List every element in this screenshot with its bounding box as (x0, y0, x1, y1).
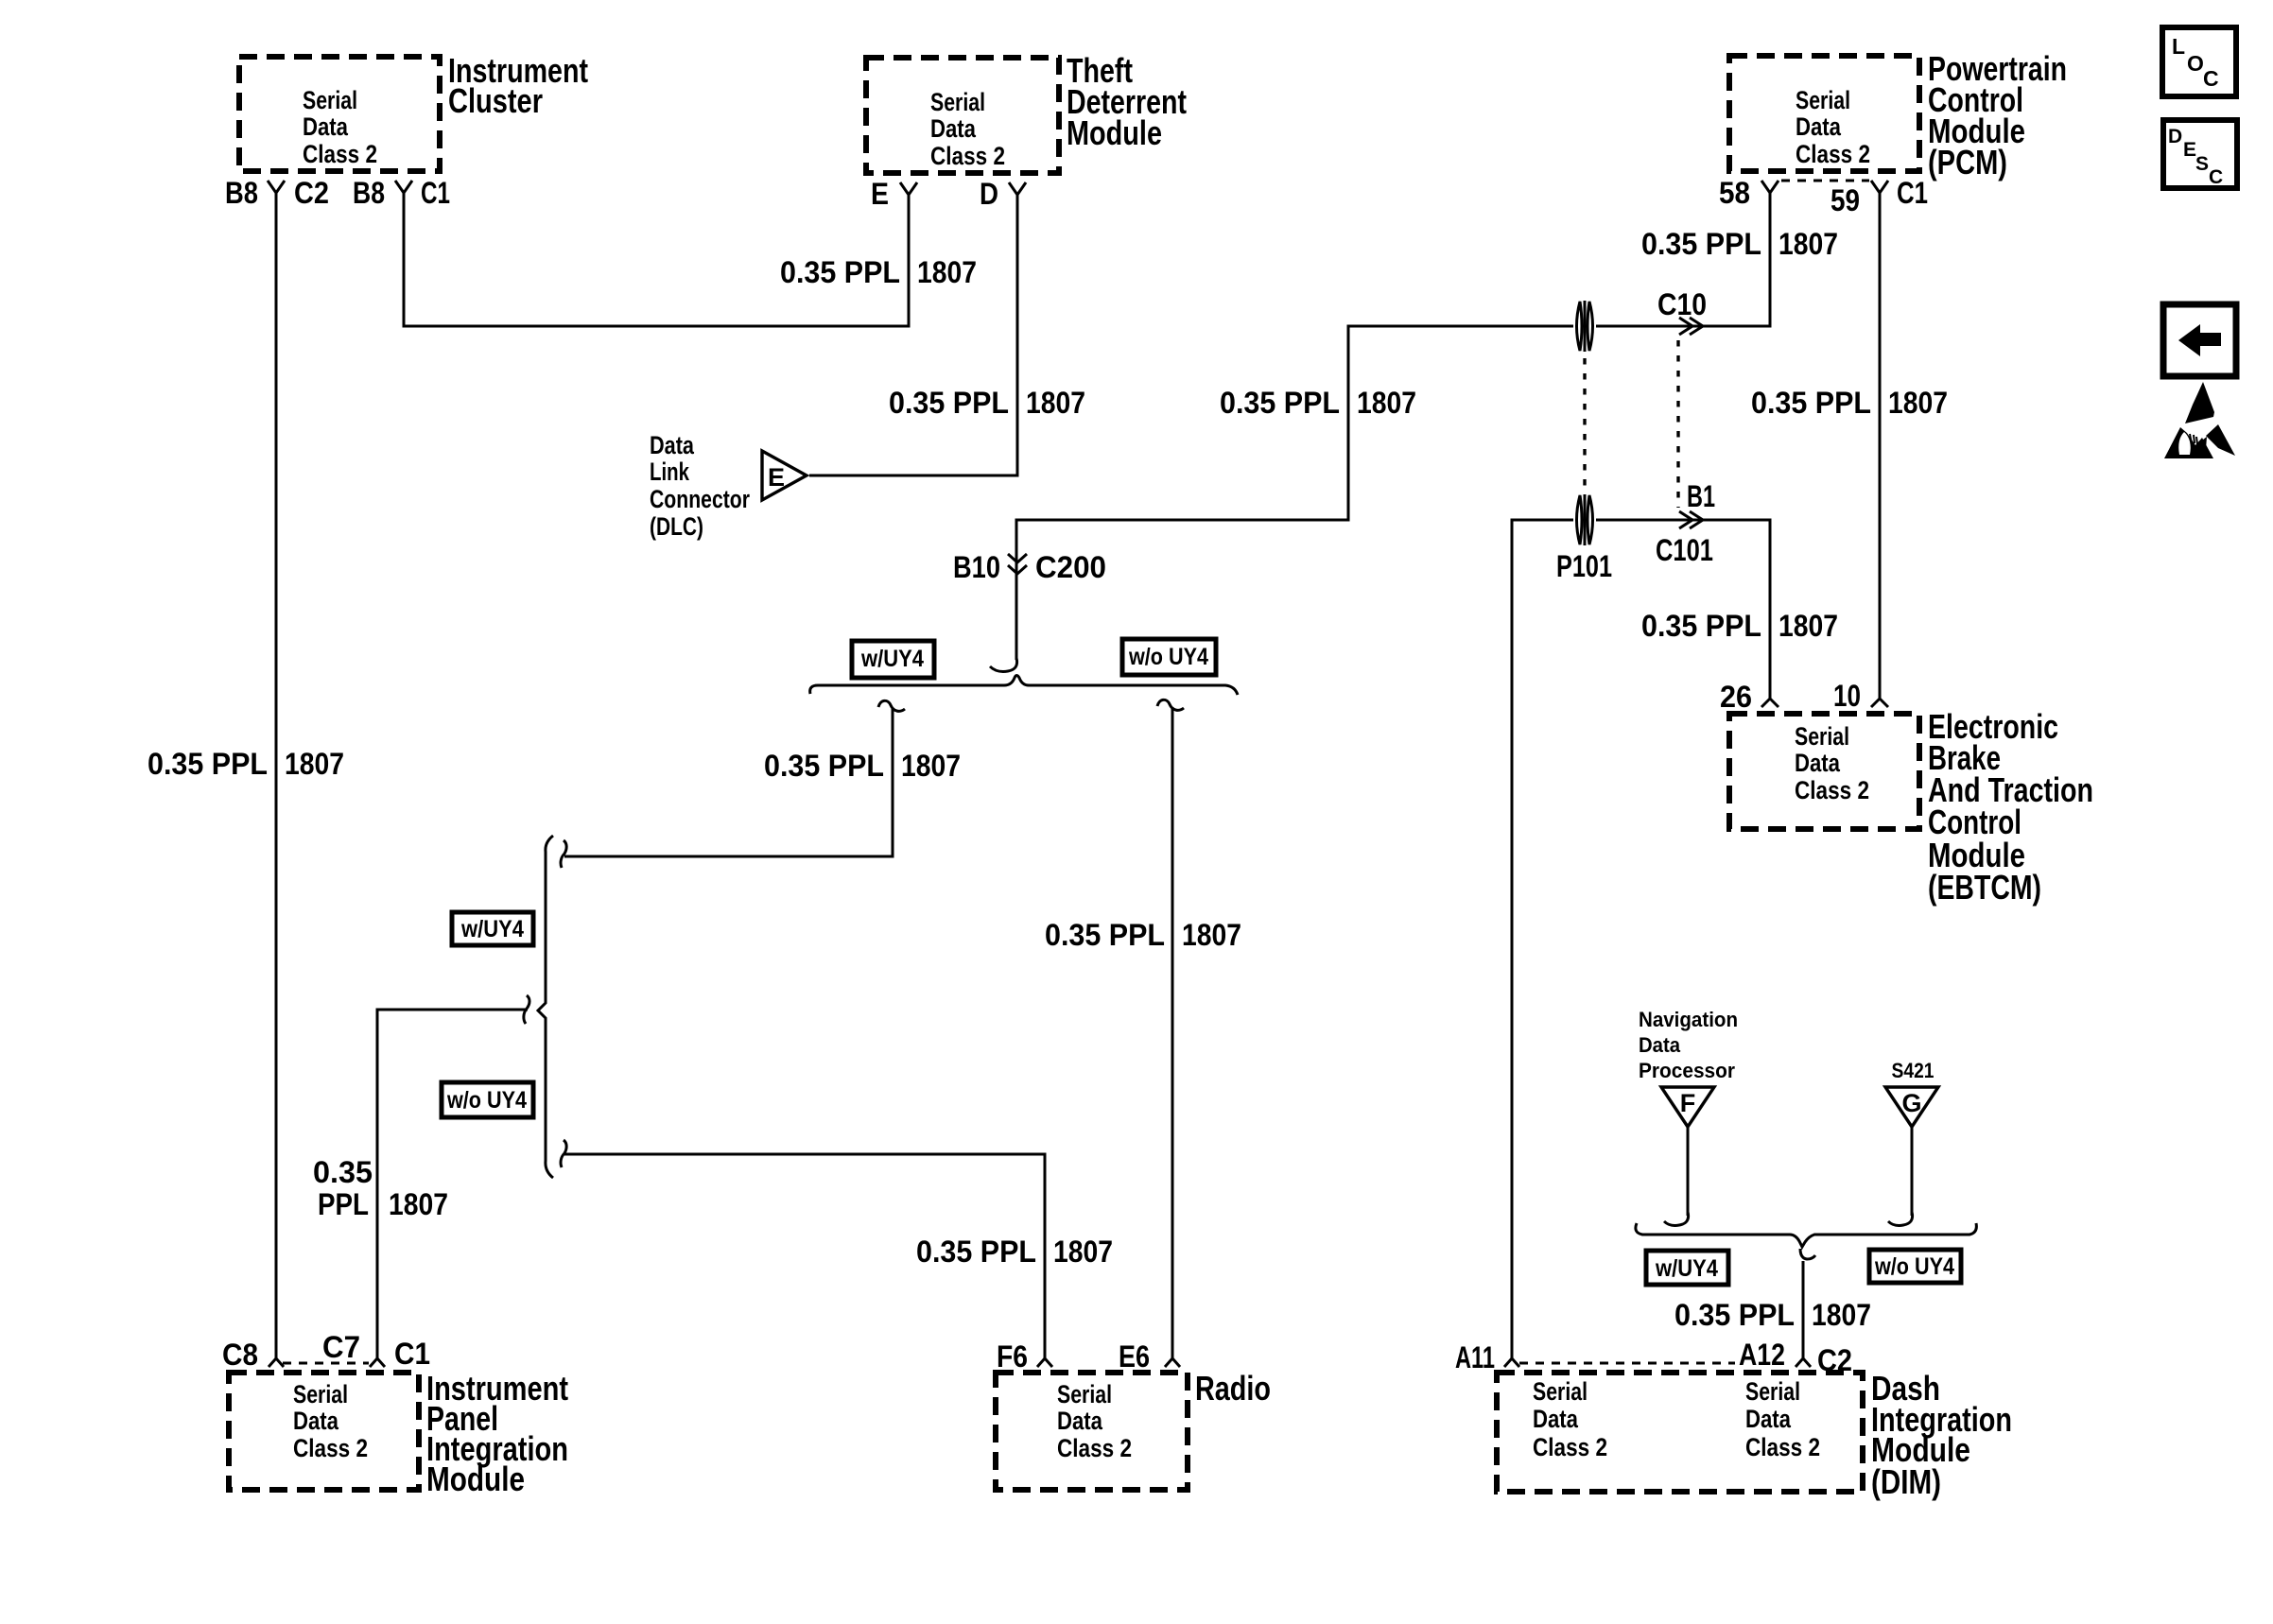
svg-text:1807: 1807 (901, 749, 961, 783)
label w/o UY4 (top split) (1122, 639, 1216, 675)
svg-text:C: C (2203, 66, 2219, 91)
module Dash Integration Module dashed box (1497, 1373, 1863, 1492)
svg-text:Class 2: Class 2 (1795, 776, 1869, 804)
svg-text:F6: F6 (997, 1339, 1028, 1373)
svg-text:0.35 PPL: 0.35 PPL (1751, 386, 1871, 420)
svg-text:Class 2: Class 2 (293, 1434, 368, 1462)
connector pin symbol 26 (1761, 699, 1778, 707)
icon back arrow box (2163, 304, 2236, 376)
svg-text:Data: Data (1057, 1407, 1103, 1435)
svg-text:B8: B8 (353, 176, 385, 210)
label Dash Integration Module (DIM) title (1871, 1369, 2012, 1501)
svg-text:w/o UY4: w/o UY4 (1874, 1253, 1954, 1280)
svg-text:1807: 1807 (1182, 918, 1241, 952)
svg-text:0.35: 0.35 (313, 1155, 373, 1189)
module Powertrain Control Module (PCM) dashed box (1729, 56, 1919, 171)
svg-text:1807: 1807 (917, 255, 977, 289)
svg-text:B10: B10 (953, 550, 1000, 584)
svg-text:Class 2: Class 2 (1533, 1433, 1607, 1461)
svg-text:Data: Data (930, 114, 977, 143)
dashed connector line below grommet (1583, 358, 1586, 492)
svg-text:O: O (2187, 51, 2204, 76)
svg-text:0.35 PPL: 0.35 PPL (764, 749, 884, 783)
svg-text:P101: P101 (1556, 549, 1612, 583)
svg-text:Radio: Radio (1195, 1369, 1271, 1408)
wire Instrument Cluster B8/C1 to TDM E (404, 193, 909, 326)
icon LOC box (2162, 27, 2236, 96)
label Serial Data Class 2 (IPIM) (293, 1380, 368, 1462)
label Serial Data Class 2 (EBTCM) (1795, 722, 1869, 804)
label Serial Data Class 2 (DIM right) (1745, 1377, 1820, 1461)
dashed tie between IPIM pins (283, 1362, 369, 1365)
svg-text:Cluster: Cluster (448, 81, 543, 120)
svg-text:C2: C2 (294, 176, 329, 210)
svg-text:1807: 1807 (1888, 386, 1948, 420)
svg-text:0.35 PPL: 0.35 PPL (780, 255, 900, 289)
svg-text:F: F (1680, 1089, 1696, 1117)
wire end curl (F) (1664, 1212, 1689, 1226)
label 0.35 PPL 1807 (IPIM C7 wire, stacked) (313, 1155, 448, 1221)
connector pin symbol 10 (1871, 699, 1888, 707)
svg-text:Serial: Serial (1057, 1380, 1112, 1408)
icon DESC box (2163, 120, 2237, 188)
label w/o UY4 (brace) (442, 1082, 533, 1117)
svg-text:(DLC): (DLC) (650, 512, 703, 541)
svg-text:59: 59 (1831, 183, 1860, 217)
label w/UY4 (DIM split) (1646, 1251, 1728, 1285)
svg-text:58: 58 (1719, 176, 1750, 210)
wire end curl at C200 split (990, 658, 1017, 671)
wire TDM D to DLC (809, 195, 1017, 475)
svg-text:1807: 1807 (285, 747, 344, 781)
svg-text:D: D (2168, 126, 2182, 147)
svg-text:C7: C7 (322, 1330, 360, 1364)
svg-text:A12: A12 (1739, 1338, 1785, 1372)
connector pin Y symbol 59 (1871, 181, 1888, 193)
connector pin Y symbol B8/C1 (395, 181, 412, 193)
connector pin symbol F6 (1037, 1358, 1052, 1367)
connector C10 pass-through chevrons (1679, 318, 1703, 335)
svg-text:10: 10 (1833, 679, 1861, 713)
dashed tie between DIM pins (1519, 1362, 1735, 1365)
connector pin symbol C7 (370, 1358, 385, 1367)
connector pin Y symbol 58 (1761, 181, 1778, 193)
svg-text:(PCM): (PCM) (1928, 143, 2007, 181)
connector B1/C101 pass-through chevrons (1679, 511, 1703, 528)
svg-text:PPL: PPL (318, 1187, 369, 1221)
svg-text:C2: C2 (1817, 1343, 1852, 1377)
label Data Link Connector (DLC) (650, 431, 750, 541)
label Electronic Brake And Traction Control Module (EBTCM) title (1928, 707, 2093, 907)
svg-text:C1: C1 (394, 1337, 430, 1371)
label Theft Deterrent Module title (1067, 51, 1187, 152)
wire IPIM C7/C1 to brace middle (377, 1010, 528, 1358)
connector G triangle (S421) (1885, 1087, 1938, 1127)
option merge bus (DIM) (1636, 1223, 1977, 1247)
svg-text:w/UY4: w/UY4 (1655, 1255, 1718, 1282)
svg-text:Module: Module (1067, 113, 1162, 152)
connector pin symbol A12 (1796, 1358, 1811, 1367)
wire w/o UY4 branch (to Radio E6) (1157, 700, 1184, 710)
connector pin symbol C8 (269, 1358, 284, 1367)
svg-text:1807: 1807 (1812, 1298, 1871, 1332)
connector grommet P100 on PCM wire (y345) (1573, 300, 1596, 353)
svg-text:S: S (2195, 153, 2209, 175)
module Instrument Panel Integration Module dashed box (229, 1373, 419, 1490)
connector C200 chevrons on vertical wire (1008, 554, 1027, 574)
svg-text:Serial: Serial (1745, 1377, 1800, 1406)
wire end curl (G) (1888, 1212, 1913, 1226)
svg-text:1807: 1807 (1778, 227, 1838, 261)
connector pin symbol A11 (1504, 1358, 1519, 1367)
svg-text:Data: Data (1745, 1405, 1792, 1433)
svg-text:Module: Module (426, 1460, 525, 1498)
svg-text:Processor: Processor (1639, 1059, 1735, 1082)
connector grommet P101 on lower wire (y550) (1573, 493, 1596, 546)
svg-text:Serial: Serial (1795, 722, 1849, 751)
svg-text:w/o UY4: w/o UY4 (1128, 644, 1208, 670)
svg-text:Link: Link (650, 458, 690, 486)
svg-text:Class 2: Class 2 (1057, 1434, 1132, 1462)
svg-text:Connector: Connector (650, 485, 750, 513)
label Serial Data Class 2 (Theft Deterrent Module) (930, 88, 1005, 170)
label Navigation Data Processor (1639, 1008, 1738, 1082)
svg-text:A11: A11 (1455, 1340, 1495, 1374)
wire bottom branch (to Radio F6) (564, 1154, 1045, 1358)
svg-text:E: E (768, 463, 785, 492)
svg-text:Data: Data (1796, 112, 1842, 141)
wire w/UY4 branch (to brace top) (878, 700, 905, 711)
svg-text:Data: Data (293, 1407, 339, 1435)
big option brace (IPIM side) (538, 836, 553, 1178)
connector pin Y symbol B8/C2 (268, 181, 285, 193)
svg-text:1807: 1807 (1357, 386, 1416, 420)
svg-text:1807: 1807 (1026, 386, 1085, 420)
svg-text:0.35 PPL: 0.35 PPL (889, 386, 1009, 420)
svg-text:(DIM): (DIM) (1871, 1462, 1941, 1501)
svg-text:0.35 PPL: 0.35 PPL (1220, 386, 1340, 420)
svg-text:0.35 PPL: 0.35 PPL (1674, 1298, 1795, 1332)
brace hook at bottom branch (561, 1140, 566, 1167)
svg-text:0.35 PPL: 0.35 PPL (1641, 609, 1761, 643)
svg-text:C101: C101 (1656, 533, 1713, 567)
wire from F triangle (1687, 1127, 1690, 1216)
svg-text:Serial: Serial (1796, 86, 1850, 114)
module Radio dashed box (996, 1373, 1188, 1490)
svg-text:(EBTCM): (EBTCM) (1928, 868, 2041, 907)
module Theft Deterrent Module dashed box (866, 58, 1059, 173)
svg-text:Data: Data (1639, 1033, 1681, 1057)
svg-text:0.35 PPL: 0.35 PPL (1641, 227, 1761, 261)
wire P101 run: A11 drop, horizontal, EBTCM 26 drop (1512, 520, 1770, 1358)
svg-text:C1: C1 (421, 176, 450, 210)
label w/UY4 (top split) (852, 641, 934, 678)
svg-text:D: D (980, 177, 998, 211)
svg-text:S421: S421 (1892, 1059, 1935, 1082)
label w/UY4 (brace) (452, 912, 533, 945)
icon ESD warning symbol (2164, 382, 2235, 458)
svg-text:G: G (1901, 1089, 1921, 1117)
connector F triangle (Navigation Data Processor) (1661, 1087, 1714, 1127)
svg-text:0.35 PPL: 0.35 PPL (916, 1235, 1036, 1269)
module Instrument Cluster dashed box (239, 57, 440, 171)
wire DIM A12/C2 with top hook (1800, 1249, 1815, 1259)
label Serial Data Class 2 (PCM) (1796, 86, 1870, 168)
connector pin Y symbol D (1009, 182, 1026, 195)
svg-text:Serial: Serial (293, 1380, 348, 1408)
wire PCM 59/C1 to EBTCM pin 10 (1879, 193, 1882, 699)
svg-text:Data: Data (650, 431, 695, 459)
svg-text:C10: C10 (1657, 287, 1707, 321)
svg-text:1807: 1807 (1053, 1235, 1113, 1269)
dashed tie between PCM pins (1781, 180, 1869, 182)
svg-text:E: E (2183, 139, 2196, 161)
svg-text:E6: E6 (1119, 1339, 1150, 1373)
svg-text:C1: C1 (1897, 176, 1928, 210)
svg-text:Data: Data (1795, 749, 1841, 777)
brace hook at top branch (561, 840, 566, 868)
label Instrument Panel Integration Module title (426, 1369, 568, 1498)
connector pin symbol E6 (1165, 1358, 1180, 1367)
svg-text:B8: B8 (225, 176, 258, 210)
wire from G triangle (1911, 1127, 1914, 1216)
option split bus below C200 (810, 676, 1238, 696)
svg-text:C8: C8 (222, 1338, 258, 1372)
svg-text:1807: 1807 (389, 1187, 448, 1221)
label Instrument Cluster title (448, 51, 588, 120)
svg-text:Serial: Serial (303, 86, 357, 114)
module EBTCM dashed box (1729, 714, 1919, 829)
svg-text:1807: 1807 (1778, 609, 1838, 643)
connector pin Y symbol E (900, 182, 917, 195)
svg-text:w/o UY4: w/o UY4 (446, 1087, 527, 1114)
svg-text:0.35 PPL: 0.35 PPL (147, 747, 268, 781)
svg-text:Data: Data (303, 112, 349, 141)
wire PCM 58 to C200 branch point (1016, 193, 1770, 660)
wire Instrument Cluster B8/C2 to IPIM C8 (275, 193, 278, 1358)
svg-text:26: 26 (1720, 680, 1752, 714)
dashed connector line below C10 chevrons (1676, 340, 1679, 508)
label Serial Data Class 2 (DIM left) (1533, 1377, 1607, 1461)
label w/o UY4 (DIM split) (1869, 1250, 1961, 1283)
svg-text:L: L (2172, 34, 2185, 59)
svg-text:Serial: Serial (1533, 1377, 1588, 1406)
svg-text:0.35 PPL: 0.35 PPL (1045, 918, 1165, 952)
svg-text:E: E (871, 177, 889, 211)
svg-text:w/UY4: w/UY4 (860, 646, 924, 672)
svg-text:Serial: Serial (930, 88, 985, 116)
label Powertrain Control Module (PCM) title (1928, 49, 2067, 181)
svg-text:C: C (2209, 166, 2223, 188)
hook at brace middle wire end (524, 995, 529, 1024)
svg-text:Class 2: Class 2 (1745, 1433, 1820, 1461)
svg-text:Class 2: Class 2 (303, 140, 377, 168)
svg-text:B1: B1 (1687, 479, 1715, 513)
label Serial Data Class 2 (Instrument Cluster) (303, 86, 377, 168)
svg-text:Data: Data (1533, 1405, 1579, 1433)
svg-text:C200: C200 (1035, 550, 1106, 584)
svg-text:w/UY4: w/UY4 (460, 916, 524, 942)
connector DLC triangle E (762, 451, 807, 500)
label Serial Data Class 2 (Radio) (1057, 1380, 1132, 1462)
svg-text:Class 2: Class 2 (1796, 140, 1870, 168)
svg-text:Navigation: Navigation (1639, 1008, 1738, 1031)
svg-text:Class 2: Class 2 (930, 142, 1005, 170)
